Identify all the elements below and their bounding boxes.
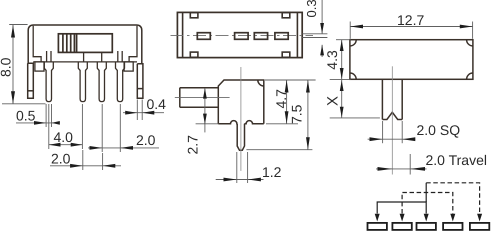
svg-text:0.5: 0.5 <box>16 108 36 124</box>
side view projection center line <box>240 67 242 171</box>
right view stem center line <box>391 66 393 174</box>
dimension 2.0 Travel <box>376 154 427 175</box>
schematic arrowheads <box>375 214 482 222</box>
svg-text:2.0 Travel: 2.0 Travel <box>426 152 487 168</box>
dimension 4.3 <box>330 40 351 80</box>
svg-text:1.2: 1.2 <box>262 164 282 180</box>
dimension 0.3 <box>302 0 327 57</box>
schematic pad 4 <box>443 223 462 230</box>
wire dashed throw 3-5 <box>426 183 479 214</box>
dimension 7.5 <box>246 80 312 150</box>
front view left bottom tab <box>35 62 44 71</box>
top view corner tab top-left <box>190 13 198 18</box>
right view body <box>350 40 473 80</box>
dimension 4.7 <box>265 80 316 124</box>
schematic pad 1 <box>368 223 387 230</box>
svg-text:X: X <box>325 96 342 106</box>
side view stem center line <box>175 96 230 98</box>
top view terminal 1 <box>197 33 210 40</box>
svg-text:0.3: 0.3 <box>304 0 319 18</box>
front view pin 2 <box>78 52 87 101</box>
svg-text:2.7: 2.7 <box>185 135 201 155</box>
top view terminal 4 <box>275 33 288 40</box>
dimension 2.0 SQ <box>368 121 416 143</box>
svg-text:12.7: 12.7 <box>397 12 424 28</box>
dimension 0.4 <box>123 100 164 121</box>
dimension 8.0 <box>2 25 46 104</box>
top view body outline <box>177 12 302 57</box>
front view right mounting leg <box>137 64 143 99</box>
schematic pad 5 <box>470 223 489 230</box>
dimension 1.2 <box>216 152 264 183</box>
dimension 2.0 right <box>88 104 159 152</box>
wire dashed throw 2-4 <box>402 193 453 214</box>
svg-text:2.0 SQ: 2.0 SQ <box>417 122 461 138</box>
svg-text:0.4: 0.4 <box>147 96 167 112</box>
wire solid riser pole 1 common <box>425 183 427 202</box>
svg-text:2.0: 2.0 <box>136 132 156 148</box>
dimension 12.7 <box>350 22 472 39</box>
front view left mounting leg <box>28 63 34 98</box>
front view right bottom tab <box>124 62 133 71</box>
front view housing body <box>28 25 142 64</box>
svg-text:2.0: 2.0 <box>51 150 71 166</box>
front view pin 3 <box>97 52 106 101</box>
svg-text:4.7: 4.7 <box>273 89 289 109</box>
dimension 2.7 <box>196 88 219 132</box>
svg-text:4.3: 4.3 <box>324 50 340 70</box>
schematic pad 2 <box>392 223 411 230</box>
svg-text:4.0: 4.0 <box>54 129 74 145</box>
top view terminal 3 <box>254 33 267 40</box>
svg-text:7.5: 7.5 <box>289 104 305 124</box>
top view corner tab top-right <box>282 13 290 18</box>
schematic pad 3 <box>417 223 436 230</box>
right view stem <box>382 79 402 119</box>
dimension 2.0 bottom <box>50 150 121 170</box>
side view actuator stem <box>180 88 219 108</box>
front view pin 1 <box>44 51 53 102</box>
dimension 0.5 <box>16 104 60 127</box>
top view corner tab bottom-right <box>282 52 290 57</box>
svg-text:8.0: 8.0 <box>0 57 14 77</box>
dimension X <box>330 80 380 118</box>
top view terminal 2 <box>235 33 249 40</box>
front view slider knob <box>58 34 112 53</box>
side view pin <box>237 124 244 151</box>
wire solid pole 1 <box>377 202 426 214</box>
top view center line <box>171 35 314 37</box>
front view pin 4 <box>116 51 125 102</box>
dimension 4.0 <box>49 104 83 149</box>
side view body <box>218 80 263 124</box>
top view corner tab bottom-left <box>190 52 198 57</box>
